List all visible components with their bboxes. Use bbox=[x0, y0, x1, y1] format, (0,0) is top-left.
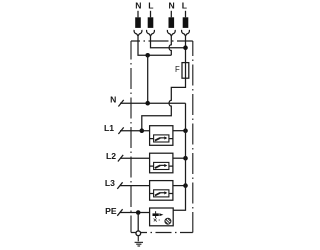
terminal 3 N : black block bbox=[169, 17, 175, 28]
terminal 4 L : lead stub bbox=[185, 11, 187, 17]
terminal 3 N : lead stub bbox=[170, 11, 172, 17]
spark gap PE : hatched circle (gas discharge) bbox=[165, 218, 171, 224]
junction dot L tie / fuse bbox=[183, 45, 188, 50]
SPD L2 : inner module rect bbox=[154, 162, 169, 169]
SPD L3 : outer box bbox=[150, 181, 173, 201]
wire: terminal4 L down to fuse bbox=[185, 36, 187, 79]
SPD L1 : outer box bbox=[150, 126, 173, 146]
spark gap PE : sparks asterisk bbox=[154, 218, 160, 221]
wire L3 bbox=[120, 185, 150, 187]
terminal 3 N : clamp fork bbox=[167, 30, 175, 36]
SPD L1 : output wire bbox=[173, 130, 186, 132]
ground symbol bbox=[135, 242, 143, 246]
svg-text:N: N bbox=[110, 95, 116, 105]
spark gap PE : arrow head bbox=[159, 213, 163, 216]
terminal 4 L : black block bbox=[183, 17, 189, 28]
wire: terminal3 N down with crossing hop to N tie line bbox=[169, 36, 171, 56]
wire PE bbox=[120, 212, 150, 214]
SPD L2 : varistor arrow bbox=[155, 165, 160, 168]
slash on N wire bbox=[118, 100, 123, 107]
spark gap PE : electrode bar bbox=[153, 213, 159, 216]
wire: fuse output down-left-down with hop over N wire, to L1 bbox=[142, 78, 186, 131]
SPD L3 : module stubs bbox=[150, 193, 173, 195]
slash on L1 wire bbox=[118, 127, 123, 134]
svg-text:N: N bbox=[168, 0, 174, 10]
wire: stub to earth bbox=[137, 236, 139, 242]
SPD L3 : inner module rect bbox=[154, 190, 169, 197]
junction dot L2 output / bus bbox=[183, 156, 188, 161]
SPD L1 : module stubs bbox=[150, 138, 173, 140]
terminal 2 L : clamp fork bbox=[147, 30, 155, 36]
wire: terminal1 N down and right to N tie line bbox=[138, 36, 171, 56]
terminal 1 N : black block bbox=[135, 17, 141, 28]
SPD L3 : varistor arrow bbox=[155, 193, 160, 196]
svg-text:N: N bbox=[135, 0, 141, 10]
PE through-terminal (open circle on border) bbox=[136, 231, 141, 236]
slash on L3 wire bbox=[117, 182, 122, 189]
SPD L2 : output wire bbox=[173, 157, 186, 159]
terminal 1 N : lead stub bbox=[137, 11, 139, 17]
terminal 2 L : black block bbox=[148, 17, 154, 28]
SPD L1 : inner module rect bbox=[154, 135, 169, 142]
junction dot PE / earth drop bbox=[136, 210, 141, 215]
wire L2 bbox=[120, 157, 150, 159]
SPD L2 : module stubs bbox=[150, 165, 173, 167]
wire: terminal2 L down and right to fuse line bbox=[151, 36, 186, 48]
slash on PE wire bbox=[117, 209, 122, 216]
junction dot L3 output / bus bbox=[183, 183, 188, 188]
junction dot fuse branch / L1 wire bbox=[140, 128, 145, 133]
svg-text:F: F bbox=[175, 65, 180, 74]
junction dot N tie / N drop bbox=[145, 53, 150, 58]
junction dot L1 output / bus bbox=[183, 128, 188, 133]
spark gap PE : top tick bbox=[155, 211, 157, 213]
wire: N/output bus down the right side to PE spark gap bbox=[173, 103, 185, 210]
terminal 4 L : clamp fork bbox=[182, 30, 190, 36]
SPD L2 : outer box bbox=[150, 153, 173, 173]
svg-text:L2: L2 bbox=[106, 151, 116, 161]
wire N (left entry) bbox=[120, 102, 186, 104]
svg-text:L3: L3 bbox=[105, 178, 115, 188]
enclosure border (dash-dot) bbox=[131, 41, 193, 233]
fuse F bbox=[182, 63, 189, 79]
svg-text:L: L bbox=[182, 0, 187, 10]
junction dot N wire / N drop bbox=[145, 101, 150, 106]
svg-text:L: L bbox=[148, 0, 153, 10]
svg-text:L1: L1 bbox=[104, 123, 114, 133]
SPD L1 : varistor arrow bbox=[155, 138, 160, 141]
SPD L3 : output wire bbox=[173, 185, 186, 187]
slash on L2 wire bbox=[118, 155, 123, 162]
spark gap PE : bottom tick bbox=[155, 216, 157, 218]
wire: N drop V1 bbox=[147, 55, 149, 103]
terminal 2 L : lead stub bbox=[150, 11, 152, 17]
svg-text:PE: PE bbox=[105, 206, 117, 216]
spark gap PE : outer box bbox=[150, 208, 174, 226]
wire: earth drop from PE junction bbox=[137, 213, 139, 232]
wire L1 bbox=[120, 130, 150, 132]
terminal 1 N : clamp fork bbox=[134, 30, 142, 36]
